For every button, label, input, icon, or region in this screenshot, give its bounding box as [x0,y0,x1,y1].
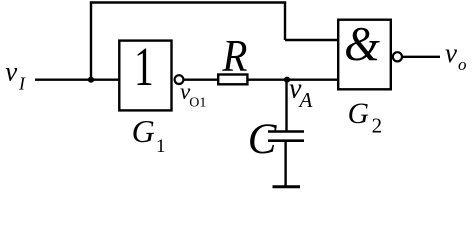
wire: feedback into G2 upper input [285,39,338,41]
wire: G1 bubble to resistor R [183,78,217,80]
svg-text:1: 1 [134,37,154,98]
node A junction dot [284,77,290,83]
capacitor C bottom plate [268,139,304,142]
svg-text:o: o [458,55,467,74]
svg-text:v: v [445,38,457,68]
svg-text:v: v [5,57,17,87]
svg-text:I: I [18,74,26,94]
svg-text:G: G [132,113,155,149]
svg-text:R: R [221,31,247,82]
svg-text:G: G [348,98,369,130]
svg-text:2: 2 [372,114,383,138]
resistor R body [218,75,247,85]
svg-text:C: C [248,116,278,163]
svg-text:&: & [344,18,380,72]
svg-text:1: 1 [156,136,166,157]
wire: feedback vertical up from junction [90,3,92,80]
wire: node A down to capacitor [285,80,287,132]
node junction dot on input wire [88,77,94,83]
inversion bubble at G1 output [175,75,184,84]
wire: feedback top horizontal [90,1,286,3]
svg-text:O1: O1 [189,96,206,111]
gate G2 box [338,20,391,90]
wire: input from v_I to gate G1 [35,78,119,80]
wire: G2 bubble to output v_o [403,56,441,58]
capacitor C top plate [268,130,304,133]
wire: capacitor to ground [284,141,286,187]
ground symbol [273,185,301,188]
gate G1 box [119,41,171,111]
wire: feedback vertical down to G2 upper input level [284,3,286,41]
wire: resistor to G2 lower input through node A [249,78,339,80]
svg-text:A: A [298,88,313,112]
inversion bubble at G2 output [393,52,402,61]
